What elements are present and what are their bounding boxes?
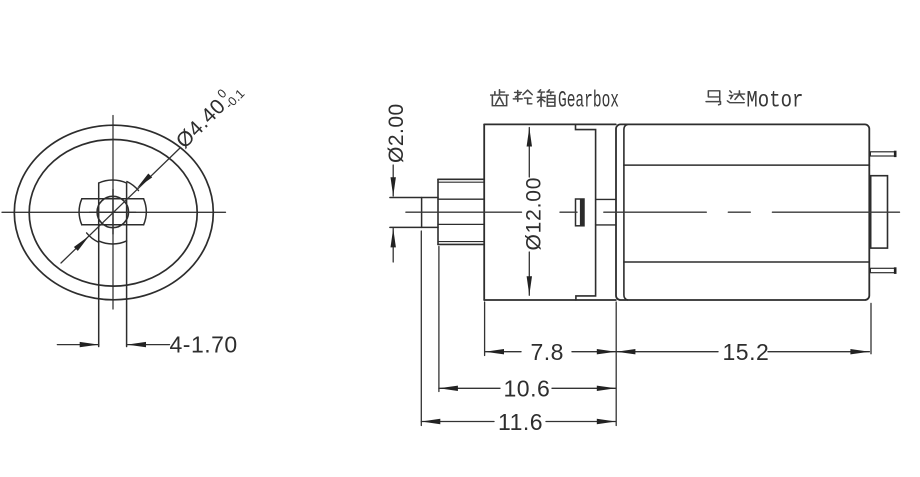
shaft top line + extension bbox=[390, 197, 438, 199]
svg-text:Ø12.00: Ø12.00 bbox=[523, 177, 546, 251]
dim 15.2 line left bbox=[616, 351, 718, 353]
motor front flange inner edge bbox=[624, 125, 628, 300]
arrowhead 11.6 right bbox=[597, 419, 616, 424]
diagonal dimension line dia4.40 bbox=[61, 148, 180, 263]
extension line at motor right bbox=[870, 303, 872, 353]
cross top arm cap arc bbox=[99, 180, 127, 183]
crosshair horizontal bbox=[90, 211, 136, 213]
gearbox inner ellipse bbox=[29, 140, 197, 287]
gearbox top edge bbox=[484, 123, 616, 125]
top terminal end cap bbox=[894, 151, 897, 157]
crosshair vertical bbox=[112, 189, 114, 234]
keyway slot dark bar bbox=[580, 199, 584, 226]
dim 15.2 line right bbox=[768, 351, 869, 353]
shaft cross horizontal bar bottom edge bbox=[82, 224, 144, 226]
dim 7.8 line left bbox=[485, 351, 521, 353]
side view centerline segment 2 bbox=[560, 211, 577, 213]
svg-text:15.2: 15.2 bbox=[723, 339, 770, 365]
corner arc bottom-left of cross (dia 4.40 circle) bbox=[87, 233, 99, 242]
svg-text:Ø2.00: Ø2.00 bbox=[385, 103, 408, 163]
svg-text:10.6: 10.6 bbox=[504, 376, 551, 402]
svg-text:Gearbox: Gearbox bbox=[558, 88, 619, 115]
vertical centerline bbox=[112, 116, 114, 310]
arrowhead lower-left of dia4.40 bbox=[74, 236, 89, 251]
cross right arm cap arc bbox=[144, 199, 147, 225]
dia12.00 dimension line lower bbox=[528, 252, 530, 295]
extension line at gearbox left bbox=[484, 302, 486, 356]
chinese char da (reach) bbox=[727, 91, 744, 103]
gearbox rear boss top line bbox=[596, 198, 616, 200]
pinion root bottom line bbox=[438, 223, 484, 225]
gearbox rear step outline bbox=[576, 124, 596, 300]
shaft cross vertical bar right edge + extension line bbox=[126, 183, 128, 347]
arrowhead dia2.00 bottom bbox=[391, 228, 396, 247]
side view centerline dash bbox=[728, 211, 750, 213]
arrowhead 10.6 right bbox=[597, 386, 616, 391]
gearbox rear boss bottom line bbox=[596, 224, 616, 226]
dia2.00 dimension line lower bbox=[392, 228, 394, 262]
dimension 4-1.70 line right part bbox=[127, 344, 170, 346]
arrowhead 10.6 left bbox=[439, 386, 458, 391]
svg-text:Motor: Motor bbox=[746, 88, 803, 115]
side view centerline segment 4 bbox=[772, 211, 899, 213]
pinion left edge bbox=[437, 179, 439, 244]
dia 4.40 text with tolerance bbox=[170, 77, 247, 154]
arrowhead 7.8 right bbox=[597, 349, 616, 354]
arrowhead 7.8 left bbox=[485, 349, 504, 354]
arrowhead upper-right of dia4.40 bbox=[137, 174, 152, 189]
bottom terminal bbox=[870, 268, 896, 272]
arrowhead 15.2 right bbox=[850, 349, 869, 354]
arrowhead right of 4-1.70 bbox=[127, 342, 146, 347]
extension line at gearbox right bbox=[615, 302, 617, 426]
extension line at shaft left bbox=[420, 231, 422, 426]
dia 12.00 text (rotated) bbox=[523, 177, 546, 251]
arrowhead 15.2 left bbox=[616, 349, 635, 354]
dia12.00 dimension line upper bbox=[528, 128, 530, 178]
chinese char lun (wheel) bbox=[513, 90, 532, 104]
motor outline bbox=[616, 124, 869, 300]
extension line at pinion left bbox=[438, 247, 440, 392]
arrowhead left of 4-1.70 bbox=[80, 342, 99, 347]
shaft left end vertical bbox=[421, 198, 423, 228]
cross bottom arm cap arc bbox=[99, 241, 127, 244]
chinese char xiang (box) bbox=[537, 90, 555, 107]
dim 10.6 line right bbox=[552, 387, 616, 389]
side view centerline segment 3 bbox=[604, 211, 707, 213]
arrowhead 11.6 left bbox=[421, 419, 440, 424]
dim 7.8 line right bbox=[572, 351, 616, 353]
keyway slot outline bbox=[576, 199, 585, 226]
dimension 4-1.70 line left part bbox=[57, 344, 98, 346]
side view centerline segment 1 bbox=[406, 211, 522, 213]
dia 2.00 text (rotated) bbox=[385, 103, 408, 163]
chinese char ma (horse) bbox=[706, 91, 720, 105]
motor top flat line bbox=[624, 164, 869, 166]
pinion bottom second line bbox=[438, 241, 484, 243]
svg-text:Ø4.40: Ø4.40 bbox=[172, 95, 230, 153]
gearbox outer ellipse bbox=[14, 125, 213, 300]
dim 11.6 line right bbox=[546, 421, 616, 423]
gearbox left edge bbox=[483, 124, 485, 300]
shaft cross horizontal bar top edge bbox=[82, 198, 144, 200]
corner arc top-right of cross (dia 4.40 circle) bbox=[127, 182, 139, 191]
bottom terminal end cap bbox=[894, 267, 897, 274]
dim 10.6 line left bbox=[439, 387, 500, 389]
dia2.00 dimension line upper bbox=[392, 165, 394, 196]
pinion top second line bbox=[438, 181, 484, 183]
horizontal centerline bbox=[2, 211, 226, 213]
end cap bushing bbox=[871, 176, 888, 248]
cross left arm cap arc bbox=[79, 199, 82, 225]
center hole circle bbox=[97, 196, 128, 227]
svg-text:4-1.70: 4-1.70 bbox=[170, 332, 238, 358]
pinion bottom outer line bbox=[438, 243, 484, 245]
shaft cross vertical bar left edge + extension line bbox=[98, 183, 100, 347]
arrowhead dia12 top bbox=[527, 128, 532, 147]
svg-text:11.6: 11.6 bbox=[498, 409, 543, 435]
motor bottom flat line bbox=[624, 261, 869, 263]
shaft bottom line + extension bbox=[390, 226, 438, 228]
gearbox bottom edge bbox=[484, 299, 616, 301]
arrowhead dia2.00 top bbox=[391, 177, 396, 196]
chinese char chi (tooth) bbox=[491, 90, 509, 106]
dim 11.6 line left bbox=[421, 421, 494, 423]
pinion top outer line bbox=[438, 178, 484, 180]
top terminal bbox=[870, 152, 896, 156]
pinion root top line bbox=[438, 198, 484, 200]
svg-text:7.8: 7.8 bbox=[531, 339, 564, 365]
arrowhead dia12 bottom bbox=[527, 276, 532, 295]
